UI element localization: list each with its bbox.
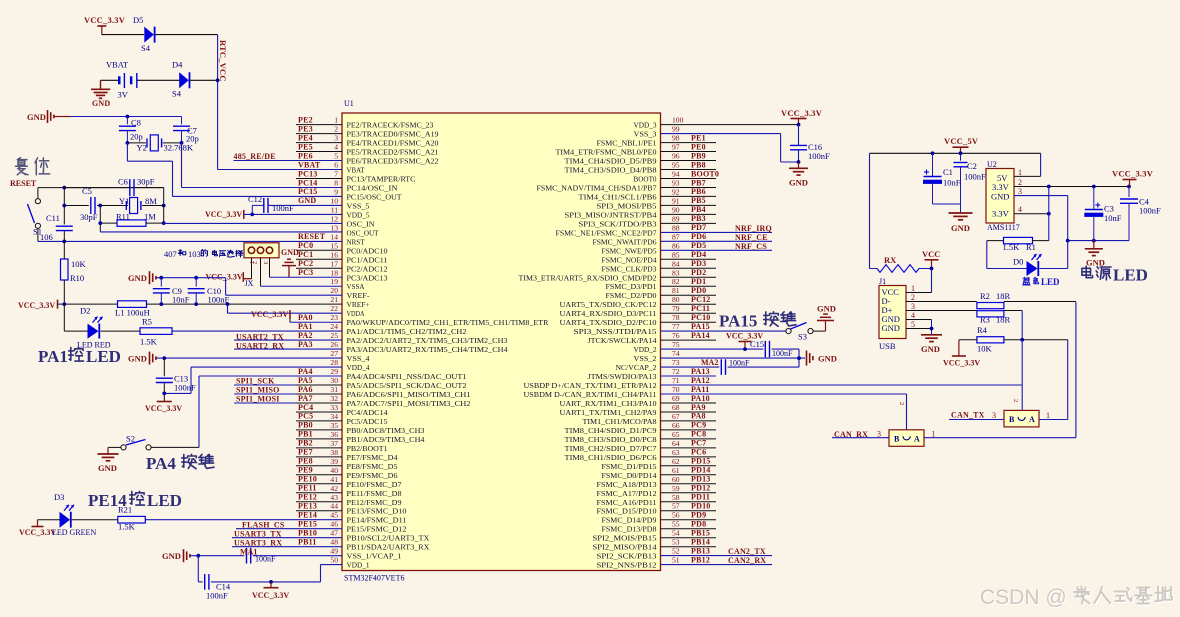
svg-text:VSS_3: VSS_3	[634, 130, 657, 139]
svg-text:VCC_3.3V: VCC_3.3V	[145, 404, 182, 413]
svg-text:96: 96	[672, 152, 680, 161]
svg-text:PC5: PC5	[298, 412, 313, 421]
svg-text:79: 79	[672, 304, 680, 313]
svg-text:PA15: PA15	[691, 322, 710, 331]
svg-text:GND: GND	[128, 273, 147, 283]
svg-text:10K: 10K	[71, 259, 87, 269]
svg-text:PE11: PE11	[298, 484, 317, 493]
svg-text:43: 43	[330, 493, 338, 502]
svg-text:S2: S2	[126, 434, 135, 444]
svg-text:9: 9	[334, 187, 338, 196]
svg-text:3.3V: 3.3V	[992, 182, 1010, 192]
svg-text:PB7: PB7	[691, 178, 706, 187]
svg-text:D5: D5	[133, 15, 143, 25]
svg-text:89: 89	[672, 214, 680, 223]
svg-text:B: B	[894, 434, 900, 443]
svg-text:62: 62	[672, 457, 680, 466]
svg-text:PA9: PA9	[691, 403, 706, 412]
svg-text:VDD_5: VDD_5	[347, 210, 370, 219]
svg-text:100nF: 100nF	[808, 151, 830, 161]
svg-text:UART5_TX/SDIO_CK/PC12: UART5_TX/SDIO_CK/PC12	[560, 300, 657, 309]
svg-text:10nF: 10nF	[1104, 213, 1122, 223]
svg-text:49: 49	[330, 547, 338, 556]
svg-text:TIM3_ETR/UART5_RX/SDIO_CMD/PD2: TIM3_ETR/UART5_RX/SDIO_CMD/PD2	[519, 273, 657, 282]
svg-text:VSS_2: VSS_2	[634, 354, 657, 363]
svg-text:PA1: PA1	[298, 322, 313, 331]
svg-text:PC10: PC10	[691, 313, 710, 322]
svg-text:GND: GND	[817, 304, 836, 314]
svg-text:PA10: PA10	[691, 394, 710, 403]
svg-text:14: 14	[330, 232, 338, 241]
svg-text:RESET: RESET	[10, 179, 37, 188]
svg-text:83: 83	[672, 268, 680, 277]
svg-text:GND: GND	[1086, 258, 1105, 268]
svg-text:PC2: PC2	[298, 259, 313, 268]
svg-text:TIM4_CH4/SDIO_D5/PB9: TIM4_CH4/SDIO_D5/PB9	[565, 157, 657, 166]
svg-text:FSMC_D0/PD14: FSMC_D0/PD14	[602, 471, 657, 480]
svg-text:2: 2	[334, 125, 338, 134]
svg-text:100: 100	[672, 116, 684, 125]
svg-text:PB3: PB3	[691, 214, 706, 223]
svg-text:75: 75	[672, 340, 680, 349]
svg-text:VSSA: VSSA	[347, 282, 365, 291]
svg-text:33: 33	[330, 403, 338, 412]
svg-text:40: 40	[330, 466, 338, 475]
svg-text:FSMC_A17/PD12: FSMC_A17/PD12	[597, 489, 657, 498]
svg-text:PE14/FSMC_D11: PE14/FSMC_D11	[347, 516, 407, 525]
svg-text:81: 81	[672, 286, 680, 295]
svg-text:PA3: PA3	[298, 340, 313, 349]
svg-text:90: 90	[672, 205, 680, 214]
svg-text:C6: C6	[118, 177, 128, 187]
svg-text:PC3/ADC13: PC3/ADC13	[347, 273, 388, 282]
svg-text:69: 69	[672, 394, 680, 403]
svg-text:PA11: PA11	[691, 385, 709, 394]
svg-text:UART_RX/TIM1_CH3/PA10: UART_RX/TIM1_CH3/PA10	[560, 399, 657, 408]
svg-text:D4: D4	[172, 60, 183, 70]
svg-text:TIM4_CH1/SCL1/PB6: TIM4_CH1/SCL1/PB6	[579, 192, 657, 201]
svg-text:PE12/FSMC_D9: PE12/FSMC_D9	[347, 498, 402, 507]
svg-text:10: 10	[330, 196, 338, 205]
svg-text:VREF-: VREF-	[347, 291, 370, 300]
svg-text:VBAT: VBAT	[106, 60, 129, 70]
svg-text:TIM1_CH1/MCO/PA8: TIM1_CH1/MCO/PA8	[583, 417, 657, 426]
svg-text:3: 3	[877, 430, 881, 439]
svg-text:PB5: PB5	[691, 196, 706, 205]
svg-text:32.768K: 32.768K	[164, 143, 194, 153]
svg-text:PA4/ADC4/SPI1_NSS/DAC_OUT1: PA4/ADC4/SPI1_NSS/DAC_OUT1	[347, 372, 467, 381]
svg-text:1.5K: 1.5K	[118, 522, 136, 532]
svg-text:PE6/TRACED3/FSMC_A22: PE6/TRACED3/FSMC_A22	[347, 157, 439, 166]
svg-text:VCC_3.3V: VCC_3.3V	[84, 15, 126, 25]
svg-text:37: 37	[330, 439, 338, 448]
svg-text:D3: D3	[54, 492, 64, 502]
svg-text:80: 80	[672, 295, 680, 304]
svg-text:OSC_IN: OSC_IN	[347, 219, 376, 228]
svg-text:34: 34	[330, 412, 338, 421]
svg-text:PB9: PB9	[691, 151, 706, 160]
svg-text:FSMC_NE1/FSMC_NCE2/PD7: FSMC_NE1/FSMC_NCE2/PD7	[556, 228, 657, 237]
svg-text:PA1/ADC1/TIM5_CH2/TIM2_CH2: PA1/ADC1/TIM5_CH2/TIM2_CH2	[347, 327, 467, 336]
svg-text:5: 5	[334, 152, 338, 161]
svg-text:TIM4_ETR/FSMC_NBL0/PE0: TIM4_ETR/FSMC_NBL0/PE0	[556, 148, 657, 157]
svg-text:76: 76	[672, 331, 680, 340]
svg-text:45: 45	[330, 511, 338, 520]
svg-text:PE10: PE10	[298, 475, 317, 484]
svg-text:PA7/ADC7/SPI1_MOSI/TIM3_CH2: PA7/ADC7/SPI1_MOSI/TIM3_CH2	[347, 399, 471, 408]
svg-text:FSMC_D14/PD9: FSMC_D14/PD9	[602, 516, 657, 525]
svg-text:PC13: PC13	[298, 169, 317, 178]
svg-text:1: 1	[248, 261, 255, 264]
svg-text:100nF: 100nF	[729, 359, 750, 368]
svg-text:C5: C5	[82, 186, 92, 196]
svg-text:50: 50	[330, 556, 338, 565]
svg-text:95: 95	[672, 161, 680, 170]
svg-text:72: 72	[672, 367, 680, 376]
svg-text:TIM8_CH2/SDIO_D7/PC7: TIM8_CH2/SDIO_D7/PC7	[565, 444, 657, 453]
svg-text:73: 73	[672, 358, 680, 367]
svg-text:VDD_2: VDD_2	[634, 345, 657, 354]
svg-text:Y1: Y1	[119, 196, 129, 206]
svg-text:PB2: PB2	[298, 439, 313, 448]
svg-text:8: 8	[334, 179, 338, 188]
svg-text:PB13: PB13	[691, 546, 710, 555]
svg-text:PB2/BOOT1: PB2/BOOT1	[347, 444, 388, 453]
svg-text:10K: 10K	[977, 344, 993, 354]
svg-text:C11: C11	[46, 213, 60, 223]
svg-text:VCC_3.3V: VCC_3.3V	[1112, 169, 1154, 179]
svg-text:SPI3_NSS/JTDI/PA15: SPI3_NSS/JTDI/PA15	[574, 327, 657, 336]
svg-text:71: 71	[672, 376, 680, 385]
svg-text:PA13: PA13	[691, 367, 710, 376]
svg-text:63: 63	[672, 448, 680, 457]
svg-text:13: 13	[330, 223, 338, 232]
svg-text:1: 1	[1046, 411, 1050, 420]
svg-text:A: A	[1029, 415, 1035, 424]
svg-text:FSMC_A18/PD13: FSMC_A18/PD13	[597, 480, 657, 489]
svg-text:GND: GND	[27, 112, 46, 122]
svg-text:6: 6	[334, 161, 338, 170]
svg-text:99: 99	[672, 125, 680, 134]
svg-text:SPI2_MOIS/PB15: SPI2_MOIS/PB15	[593, 534, 657, 543]
svg-text:PB1/ADC9/TIM3_CH4: PB1/ADC9/TIM3_CH4	[347, 435, 425, 444]
svg-text:PE0: PE0	[691, 142, 706, 151]
svg-text:SPI3_MISO/JNTRST/PB4: SPI3_MISO/JNTRST/PB4	[565, 210, 657, 219]
svg-text:8M: 8M	[145, 196, 157, 206]
svg-text:SPI3_MOSI/PB5: SPI3_MOSI/PB5	[597, 201, 657, 210]
svg-text:C2: C2	[967, 161, 977, 171]
svg-text:SPI2_SCK/PB13: SPI2_SCK/PB13	[597, 552, 657, 561]
svg-text:84: 84	[672, 259, 680, 268]
svg-text:74: 74	[672, 349, 680, 358]
svg-text:PA3/ADC3/UART2_RX/TIM5_CH4/TIM: PA3/ADC3/UART2_RX/TIM5_CH4/TIM2_CH4	[347, 345, 508, 354]
svg-text:10nF: 10nF	[943, 178, 961, 188]
svg-text:31: 31	[330, 385, 338, 394]
svg-text:PA1: PA1	[38, 347, 68, 366]
svg-text:PC9: PC9	[691, 421, 706, 430]
svg-text:JTCK/SWCLK/PA14: JTCK/SWCLK/PA14	[588, 336, 657, 345]
svg-text:PE14: PE14	[298, 511, 317, 520]
svg-text:485_RE/DE: 485_RE/DE	[234, 152, 276, 161]
svg-text:41: 41	[330, 475, 338, 484]
svg-text:VSS_1/VCAP_1: VSS_1/VCAP_1	[347, 552, 402, 561]
svg-text:PE8/FSMC_D5: PE8/FSMC_D5	[347, 462, 398, 471]
svg-text:100nF: 100nF	[206, 591, 228, 601]
svg-text:1.5K: 1.5K	[140, 337, 158, 347]
svg-text:PC13/TAMPER/RTC: PC13/TAMPER/RTC	[347, 175, 416, 184]
svg-text:46: 46	[330, 520, 338, 529]
svg-text:PB15: PB15	[691, 529, 710, 538]
svg-text:PD5: PD5	[691, 241, 706, 250]
svg-text:PA12: PA12	[691, 376, 710, 385]
svg-text:GND: GND	[991, 192, 1009, 202]
svg-text:PE4/TRACED1/FSMC_A20: PE4/TRACED1/FSMC_A20	[347, 139, 439, 148]
svg-text:PC5/ADC15: PC5/ADC15	[347, 417, 388, 426]
svg-text:53: 53	[672, 538, 680, 547]
svg-text:20: 20	[330, 286, 338, 295]
svg-text:21: 21	[330, 295, 338, 304]
svg-text:GND: GND	[92, 99, 110, 108]
svg-text:51: 51	[672, 556, 680, 565]
svg-text:30: 30	[330, 376, 338, 385]
svg-text:PD8: PD8	[691, 520, 706, 529]
svg-text:PB11/SDA2/UART3_RX: PB11/SDA2/UART3_RX	[347, 543, 431, 552]
svg-text:15: 15	[330, 241, 338, 250]
svg-text:GND: GND	[298, 196, 316, 205]
svg-text:PC1: PC1	[298, 250, 313, 259]
svg-text:55: 55	[672, 520, 680, 529]
svg-text:GND: GND	[921, 344, 940, 354]
svg-text:3: 3	[334, 134, 338, 143]
svg-text:PD3: PD3	[691, 259, 706, 268]
svg-text:U2: U2	[987, 160, 997, 169]
svg-text:67: 67	[672, 412, 680, 421]
svg-text:SPI3_SCK/JTDO/PB3: SPI3_SCK/JTDO/PB3	[579, 219, 657, 228]
svg-text:PC11: PC11	[691, 304, 710, 313]
svg-text:100nF: 100nF	[964, 172, 986, 182]
svg-text:GND: GND	[818, 354, 837, 364]
svg-text:77: 77	[672, 322, 680, 331]
svg-text:USBDM D-/CAN_RX/TIM1_CH4/PA11: USBDM D-/CAN_RX/TIM1_CH4/PA11	[524, 390, 657, 399]
svg-text:MA2: MA2	[701, 358, 718, 367]
svg-text:LED: LED	[1113, 266, 1148, 285]
svg-text:PC4/ADC14: PC4/ADC14	[347, 408, 388, 417]
svg-text:PD7: PD7	[691, 223, 706, 232]
svg-text:BOOT0: BOOT0	[691, 169, 719, 178]
svg-text:PC14/OSC_IN: PC14/OSC_IN	[347, 184, 399, 193]
svg-text:PD6: PD6	[691, 232, 706, 241]
svg-text:PE6: PE6	[298, 151, 313, 160]
svg-text:R5: R5	[142, 317, 152, 327]
svg-text:PB10: PB10	[298, 529, 317, 538]
svg-text:PA6: PA6	[298, 385, 313, 394]
svg-text:PE13/FSMC_D10: PE13/FSMC_D10	[347, 507, 407, 516]
svg-text:66: 66	[672, 421, 680, 430]
svg-text:GND: GND	[951, 223, 970, 233]
svg-text:1.5K: 1.5K	[1003, 242, 1021, 252]
svg-text:RTC_VCC: RTC_VCC	[218, 40, 228, 82]
svg-text:1: 1	[932, 430, 936, 439]
svg-text:11: 11	[331, 205, 339, 214]
svg-text:PA4: PA4	[146, 454, 176, 473]
svg-text:FSMC_D15/PD10: FSMC_D15/PD10	[597, 507, 657, 516]
svg-text:PC14: PC14	[298, 178, 317, 187]
svg-text:VCC_5V: VCC_5V	[944, 136, 979, 146]
svg-text:PB6: PB6	[691, 187, 706, 196]
svg-text:PA2: PA2	[298, 331, 313, 340]
svg-text:PB11: PB11	[298, 538, 317, 547]
svg-text:24: 24	[330, 322, 338, 331]
svg-text:PA0/WKUP/ADC0/TIM2_CH1_ETR/TIM: PA0/WKUP/ADC0/TIM2_CH1_ETR/TIM5_CH1/TIM8…	[347, 318, 550, 327]
svg-text:GND: GND	[98, 463, 117, 473]
svg-text:GND: GND	[789, 178, 808, 188]
svg-text:PB0: PB0	[298, 421, 313, 430]
svg-text:PC12: PC12	[691, 295, 710, 304]
svg-text:PE5: PE5	[298, 142, 313, 151]
svg-text:42: 42	[330, 484, 338, 493]
svg-text:D2: D2	[80, 306, 90, 316]
svg-text:OSC_OUT: OSC_OUT	[347, 228, 379, 237]
svg-text:VDD_4: VDD_4	[347, 363, 370, 372]
svg-text:PA6/ADC6/SPI1_MISO/TIM3_CH1: PA6/ADC6/SPI1_MISO/TIM3_CH1	[347, 390, 471, 399]
svg-text:PB10/SCL2/UART3_TX: PB10/SCL2/UART3_TX	[347, 534, 431, 543]
svg-text:86: 86	[672, 241, 680, 250]
svg-text:56: 56	[672, 511, 680, 520]
svg-text:25: 25	[330, 331, 338, 340]
svg-text:TIM4_CH3/SDIO_D4/PB8: TIM4_CH3/SDIO_D4/PB8	[565, 166, 657, 175]
svg-text:68: 68	[672, 403, 680, 412]
svg-text:VDD_1: VDD_1	[347, 561, 370, 570]
svg-text:36: 36	[330, 430, 338, 439]
svg-text:93: 93	[672, 179, 680, 188]
svg-text:PD1: PD1	[691, 277, 706, 286]
svg-text:PA14: PA14	[691, 331, 710, 340]
svg-text:STM32F407VET6: STM32F407VET6	[344, 574, 404, 583]
svg-text:PC1/ADC11: PC1/ADC11	[347, 255, 388, 264]
svg-text:PD10: PD10	[691, 502, 710, 511]
svg-text:7: 7	[334, 170, 338, 179]
svg-text:PE13: PE13	[298, 502, 317, 511]
svg-text:R4: R4	[977, 325, 988, 335]
svg-text:PE5/TRACED2/FSMC_A21: PE5/TRACED2/FSMC_A21	[347, 148, 439, 157]
svg-text:FSMC_D1/PD15: FSMC_D1/PD15	[602, 462, 657, 471]
svg-text:44: 44	[330, 502, 338, 511]
svg-text:58: 58	[672, 493, 680, 502]
svg-text:100nF: 100nF	[255, 555, 276, 564]
svg-text:PE9: PE9	[298, 466, 313, 475]
svg-text:UART1_TX/TIM1_CH2/PA9: UART1_TX/TIM1_CH2/PA9	[560, 408, 657, 417]
svg-text:70: 70	[672, 385, 680, 394]
svg-text:SPI2_NNS/PB12: SPI2_NNS/PB12	[597, 561, 657, 570]
svg-text:2: 2	[898, 402, 905, 405]
svg-text:VBAT: VBAT	[298, 160, 321, 169]
svg-text:PD0: PD0	[691, 286, 706, 295]
svg-text:PD12: PD12	[691, 484, 710, 493]
svg-text:1: 1	[911, 284, 915, 293]
svg-text:PE2/TRACECK/FSMC_23: PE2/TRACECK/FSMC_23	[347, 121, 434, 130]
svg-text:PE10/FSMC_D7: PE10/FSMC_D7	[347, 480, 402, 489]
svg-text:PC4: PC4	[298, 403, 313, 412]
svg-text:PB8: PB8	[691, 160, 706, 169]
svg-text:B: B	[1009, 415, 1015, 424]
svg-text:PB1: PB1	[298, 430, 313, 439]
svg-text:NRF_CS: NRF_CS	[735, 242, 767, 251]
svg-text:18: 18	[330, 268, 338, 277]
svg-text:30pF: 30pF	[80, 212, 98, 222]
svg-text:94: 94	[672, 170, 680, 179]
svg-text:1M: 1M	[144, 212, 156, 222]
svg-text:407: 407	[164, 249, 177, 259]
svg-text:PE7: PE7	[298, 448, 313, 457]
svg-text:VBAT: VBAT	[347, 166, 365, 175]
svg-text:VCC_3.3V: VCC_3.3V	[206, 272, 243, 281]
svg-text:12: 12	[330, 214, 338, 223]
svg-text:PA8: PA8	[691, 412, 706, 421]
svg-text:5: 5	[911, 320, 915, 329]
svg-text:RX: RX	[884, 255, 897, 265]
svg-text:39: 39	[330, 457, 338, 466]
svg-text:23: 23	[330, 313, 338, 322]
svg-text:PC15/OSC_OUT: PC15/OSC_OUT	[347, 192, 402, 201]
svg-text:10nF: 10nF	[172, 295, 190, 305]
svg-text:SPI1_MISO: SPI1_MISO	[236, 386, 280, 395]
svg-text:FSMC_D2/PD0: FSMC_D2/PD0	[606, 291, 657, 300]
svg-text:100nF: 100nF	[772, 349, 793, 358]
svg-text:19: 19	[330, 277, 338, 286]
svg-text:GND: GND	[281, 248, 299, 257]
svg-text:29: 29	[330, 367, 338, 376]
svg-text:17: 17	[330, 259, 338, 268]
svg-text:59: 59	[672, 484, 680, 493]
svg-text:S3: S3	[798, 332, 807, 342]
svg-text:2: 2	[1018, 178, 1022, 187]
svg-text:TIM8_CH4/SDIO_D1/PC9: TIM8_CH4/SDIO_D1/PC9	[565, 426, 657, 435]
svg-text:16: 16	[330, 250, 338, 259]
svg-text:Y2: Y2	[137, 143, 147, 153]
svg-text:FSMC_A16/PD11: FSMC_A16/PD11	[597, 498, 657, 507]
svg-text:LED: LED	[1041, 277, 1060, 287]
svg-text:85: 85	[672, 250, 680, 259]
svg-text:100nF: 100nF	[174, 383, 196, 393]
svg-text:VCC_3.3V: VCC_3.3V	[251, 310, 288, 319]
svg-text:PB12: PB12	[691, 555, 710, 564]
svg-text:FSMC_NOE/PD4: FSMC_NOE/PD4	[602, 255, 657, 264]
svg-text:PD4: PD4	[691, 250, 706, 259]
svg-text:VDDA: VDDA	[347, 309, 365, 318]
svg-text:PC0: PC0	[298, 241, 313, 250]
svg-text:NC/VCAP_2: NC/VCAP_2	[616, 363, 657, 372]
svg-text:LED: LED	[147, 491, 182, 510]
svg-text:PC7: PC7	[691, 439, 706, 448]
svg-text:RESET: RESET	[298, 232, 326, 241]
svg-text:C3: C3	[1104, 204, 1114, 214]
svg-text:LED: LED	[86, 347, 121, 366]
svg-text:UART4_RX/SDIO_D3/PC11: UART4_RX/SDIO_D3/PC11	[560, 309, 657, 318]
svg-text:PD9: PD9	[691, 511, 706, 520]
svg-text:4: 4	[911, 311, 915, 320]
svg-text:PA4: PA4	[298, 367, 313, 376]
svg-text:VCC_3.3V: VCC_3.3V	[943, 359, 980, 368]
svg-text:FSMC_NWE/PD5: FSMC_NWE/PD5	[602, 246, 657, 255]
svg-text:27: 27	[330, 349, 338, 358]
svg-text:PD13: PD13	[691, 475, 710, 484]
svg-text:C8: C8	[131, 118, 141, 128]
svg-text:3V: 3V	[118, 90, 129, 100]
svg-text:52: 52	[672, 547, 680, 556]
svg-text:87: 87	[672, 232, 680, 241]
svg-text:LED GREEN: LED GREEN	[52, 528, 96, 537]
svg-text:PA5/ADC5/SPI1_SCK/DAC_OUT2: PA5/ADC5/SPI1_SCK/DAC_OUT2	[347, 381, 467, 390]
